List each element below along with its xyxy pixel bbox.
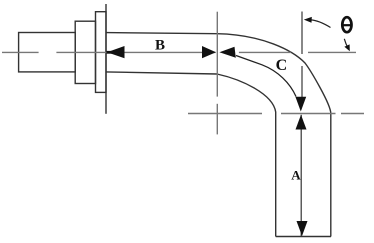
- pipe bottom edge: [106, 72, 217, 74]
- horizontal centerline dash 3 (C region): [239, 51, 291, 53]
- B dimension right arrowhead: [202, 46, 216, 58]
- theta leader arrow to vertical line: [311, 20, 331, 28]
- bend inner edge: [217, 74, 276, 237]
- bend outer edge: [217, 34, 331, 237]
- fitting flange: [96, 12, 107, 93]
- label theta (drawn): [342, 17, 351, 32]
- C dimension left arrowhead: [219, 47, 235, 58]
- horizontal centerline dash 2 (with B dimension line): [56, 51, 215, 53]
- A dimension top arrowhead (up): [296, 115, 307, 130]
- pipe top edge: [106, 33, 217, 34]
- pipe bottom end edge: [276, 236, 331, 238]
- A dimension line: [300, 115, 302, 236]
- bend vertical centerline dash 1: [216, 12, 218, 97]
- lower horizontal centerline dash 1: [188, 113, 262, 115]
- horizontal centerline dash 4 (theta reference): [308, 51, 356, 53]
- lower horizontal centerline dash 2: [281, 113, 336, 115]
- bend vertical centerline dash 2: [216, 104, 218, 135]
- svg-text:A: A: [291, 167, 301, 182]
- svg-text:C: C: [276, 57, 288, 74]
- C dimension end arrowhead (down): [295, 97, 306, 112]
- flange face line: [105, 4, 107, 114]
- vertical dimension line upper dash (theta leg): [301, 12, 303, 55]
- fitting hex nut: [75, 21, 95, 83]
- B dimension left arrowhead: [107, 46, 125, 58]
- svg-text:B: B: [155, 37, 165, 53]
- theta leader arrow to horizontal line: [344, 39, 348, 48]
- vertical dimension line lower dash (C end): [301, 66, 303, 98]
- lower horizontal centerline dash 3: [341, 113, 364, 115]
- horizontal centerline dash 1: [2, 51, 39, 53]
- A dimension bottom arrowhead (down): [297, 221, 308, 236]
- fitting tube body: [19, 33, 76, 72]
- C dimension curved line: [236, 56, 296, 97]
